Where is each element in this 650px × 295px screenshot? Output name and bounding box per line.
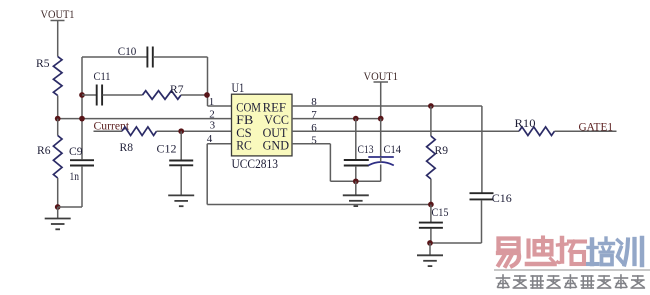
svg-text:C9: C9 — [69, 145, 83, 158]
svg-text:GND: GND — [263, 137, 289, 152]
node C13 top / VCC junction — [353, 116, 359, 122]
svg-text:1n: 1n — [70, 170, 80, 183]
wire C12 stem — [180, 131, 182, 160]
wire R5 bottom to FB node — [57, 96, 59, 119]
node REF/R9 junction — [428, 103, 434, 109]
node VOUT1/C14/VCC junction — [378, 116, 384, 122]
svg-text:UCC2813: UCC2813 — [232, 157, 279, 171]
svg-text:C11: C11 — [94, 70, 111, 83]
wire VOUT1 down to VCC — [380, 82, 382, 119]
svg-text:4: 4 — [207, 133, 213, 145]
wire REF line (pin 8) — [292, 105, 482, 107]
node C11 left junction — [79, 92, 85, 98]
wire C14 stem bottom — [380, 165, 382, 182]
capacitor C11 — [82, 70, 111, 106]
svg-text:C16: C16 — [492, 192, 512, 205]
resistor R5 — [36, 57, 62, 96]
wire C13 stem top — [355, 119, 357, 160]
wire CS line (pin 3) — [157, 130, 232, 132]
wire VOUT1 to R5 top — [57, 21, 59, 57]
wire OUT line (pin 6) to R10 — [292, 130, 519, 132]
wire C13 stem bottom — [355, 166, 357, 181]
wire VCC line (pin 7) — [292, 118, 381, 120]
svg-text:R10: R10 — [515, 117, 536, 130]
svg-text:R8: R8 — [120, 141, 134, 154]
capacitor C14 (polarized) — [368, 143, 401, 165]
watermark logo big text — [498, 238, 642, 267]
ground (right, C15) — [417, 243, 443, 266]
wire bottom-left horizontal — [58, 206, 82, 208]
ground (left) — [45, 207, 71, 229]
resistor R6 — [37, 119, 62, 207]
wire vertical C10/R7 to pin1 — [207, 57, 209, 106]
wire C14 stem mid — [380, 157, 382, 162]
svg-text:R6: R6 — [37, 144, 51, 157]
wire pin 1 stub — [208, 105, 232, 107]
node R9/RC-route/C15 junction — [428, 202, 434, 208]
resistor R10 — [515, 117, 555, 136]
watermark logo tagline — [497, 275, 645, 288]
node FB/left-vertical junction — [79, 116, 85, 122]
watermark logo divider rule — [494, 269, 650, 271]
wire pin 4 stub and routing to R9 bottom — [207, 143, 231, 145]
svg-text:C14: C14 — [384, 143, 402, 156]
wire C14 stem top — [380, 119, 382, 157]
svg-text:R5: R5 — [36, 57, 50, 70]
svg-text:C10: C10 — [118, 45, 137, 58]
wire REF elbow down to C16 — [481, 106, 483, 193]
op-amp U1 body UCC2813 — [232, 81, 293, 171]
svg-text:C13: C13 — [358, 143, 374, 156]
ground (C12) — [168, 195, 194, 206]
resistor R9 — [427, 106, 449, 205]
svg-text:C12: C12 — [157, 143, 177, 156]
wire C9 bottom to ground junction — [81, 166, 83, 207]
wire C12 to ground — [180, 166, 182, 195]
svg-text:5: 5 — [311, 135, 317, 147]
svg-text:U1: U1 — [232, 81, 245, 95]
svg-text:3: 3 — [210, 119, 216, 131]
net label VOUT1 (right) — [364, 70, 399, 83]
node R6/C9/ground junction — [55, 204, 61, 210]
svg-text:6: 6 — [311, 122, 317, 134]
svg-text:C15: C15 — [432, 206, 449, 219]
svg-text:VOUT1: VOUT1 — [41, 8, 75, 21]
node R5/R6/FB junction — [55, 116, 61, 122]
resistor R8 — [120, 127, 157, 154]
capacitor C9 — [69, 145, 94, 183]
wire C15 bottom — [430, 229, 432, 244]
wire GND pin 5 routing — [292, 143, 330, 145]
node C15/C16 bottom junction — [427, 240, 433, 246]
wire C10 left — [82, 56, 147, 58]
capacitor C13 — [344, 143, 374, 166]
wire FB line (pin 2) — [58, 118, 232, 120]
svg-text:R7: R7 — [170, 83, 184, 96]
resistor R7 — [143, 83, 184, 99]
wire C11 to R7 — [103, 94, 143, 96]
svg-text:RC: RC — [236, 137, 252, 152]
capacitor C16 — [470, 192, 513, 205]
wire R7 right — [181, 94, 208, 96]
svg-text:R9: R9 — [435, 144, 449, 157]
wire C16 bottom to C15 bottom — [481, 200, 483, 243]
svg-text:1: 1 — [209, 96, 215, 108]
svg-text:GATE1: GATE1 — [579, 120, 614, 134]
ground (middle, pin 5) — [343, 181, 369, 206]
net label VOUT1 (left) — [41, 8, 75, 21]
node C13 bottom / pin5 / ground junction — [353, 178, 359, 184]
svg-text:VOUT1: VOUT1 — [364, 70, 399, 83]
capacitor C15 — [419, 205, 449, 228]
wire R10 to GATE1 — [555, 130, 617, 132]
capacitor C10 — [118, 45, 153, 68]
node CS/R8/C12 junction — [178, 128, 184, 134]
wire Current net stub — [94, 130, 123, 132]
capacitor C12 — [157, 143, 194, 166]
net label Current — [94, 120, 130, 133]
wire left vertical (C10 left to C9) — [81, 57, 83, 159]
node R7/C10 vertical junction — [204, 92, 210, 98]
wire C10 right to vertical — [153, 56, 208, 58]
